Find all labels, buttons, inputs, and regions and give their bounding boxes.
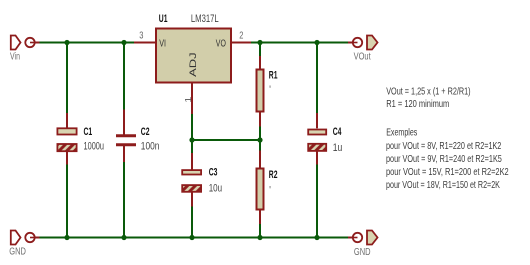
svg-text:10u: 10u <box>209 182 222 195</box>
svg-text:Exemples: Exemples <box>386 126 418 138</box>
svg-text:1: 1 <box>184 97 193 103</box>
svg-text:ADJ: ADJ <box>189 52 199 77</box>
svg-text:': ' <box>269 184 271 196</box>
svg-text:GND: GND <box>354 246 371 257</box>
svg-text:U1: U1 <box>159 12 168 24</box>
svg-text:C1: C1 <box>84 125 93 137</box>
svg-text:pour VOut = 9V, R1=240 et R2=1: pour VOut = 9V, R1=240 et R2=1K5 <box>386 153 502 164</box>
svg-text:VOut: VOut <box>354 51 372 62</box>
svg-text:100n: 100n <box>141 140 160 152</box>
svg-text:pour VOut = 8V, R1=220 et R2=1: pour VOut = 8V, R1=220 et R2=1K2 <box>386 140 501 151</box>
svg-text:C3: C3 <box>209 166 218 178</box>
svg-text:3: 3 <box>139 30 143 41</box>
svg-text:C4: C4 <box>333 125 342 137</box>
svg-text:R1 = 120 minimum: R1 = 120 minimum <box>386 98 449 109</box>
svg-text:2: 2 <box>239 30 243 41</box>
svg-text:C2: C2 <box>141 125 150 137</box>
svg-text:1000u: 1000u <box>84 140 104 152</box>
svg-text:pour VOut = 18V, R1=150 et R2=: pour VOut = 18V, R1=150 et R2=2K <box>386 179 500 191</box>
svg-text:': ' <box>269 84 271 96</box>
svg-text:VOut = 1,25 x (1 + R2/R1): VOut = 1,25 x (1 + R2/R1) <box>386 85 470 96</box>
svg-text:Vin: Vin <box>10 50 20 62</box>
svg-text:LM317L: LM317L <box>191 13 219 26</box>
svg-text:GND: GND <box>9 246 26 257</box>
svg-text:VI: VI <box>159 37 166 48</box>
svg-text:R2: R2 <box>269 168 278 180</box>
svg-text:VO: VO <box>216 37 226 49</box>
svg-text:pour VOut = 15V, R1=200 et R2=: pour VOut = 15V, R1=200 et R2=2K2 <box>386 166 509 177</box>
svg-text:1u: 1u <box>333 142 343 154</box>
svg-text:R1: R1 <box>269 69 278 81</box>
